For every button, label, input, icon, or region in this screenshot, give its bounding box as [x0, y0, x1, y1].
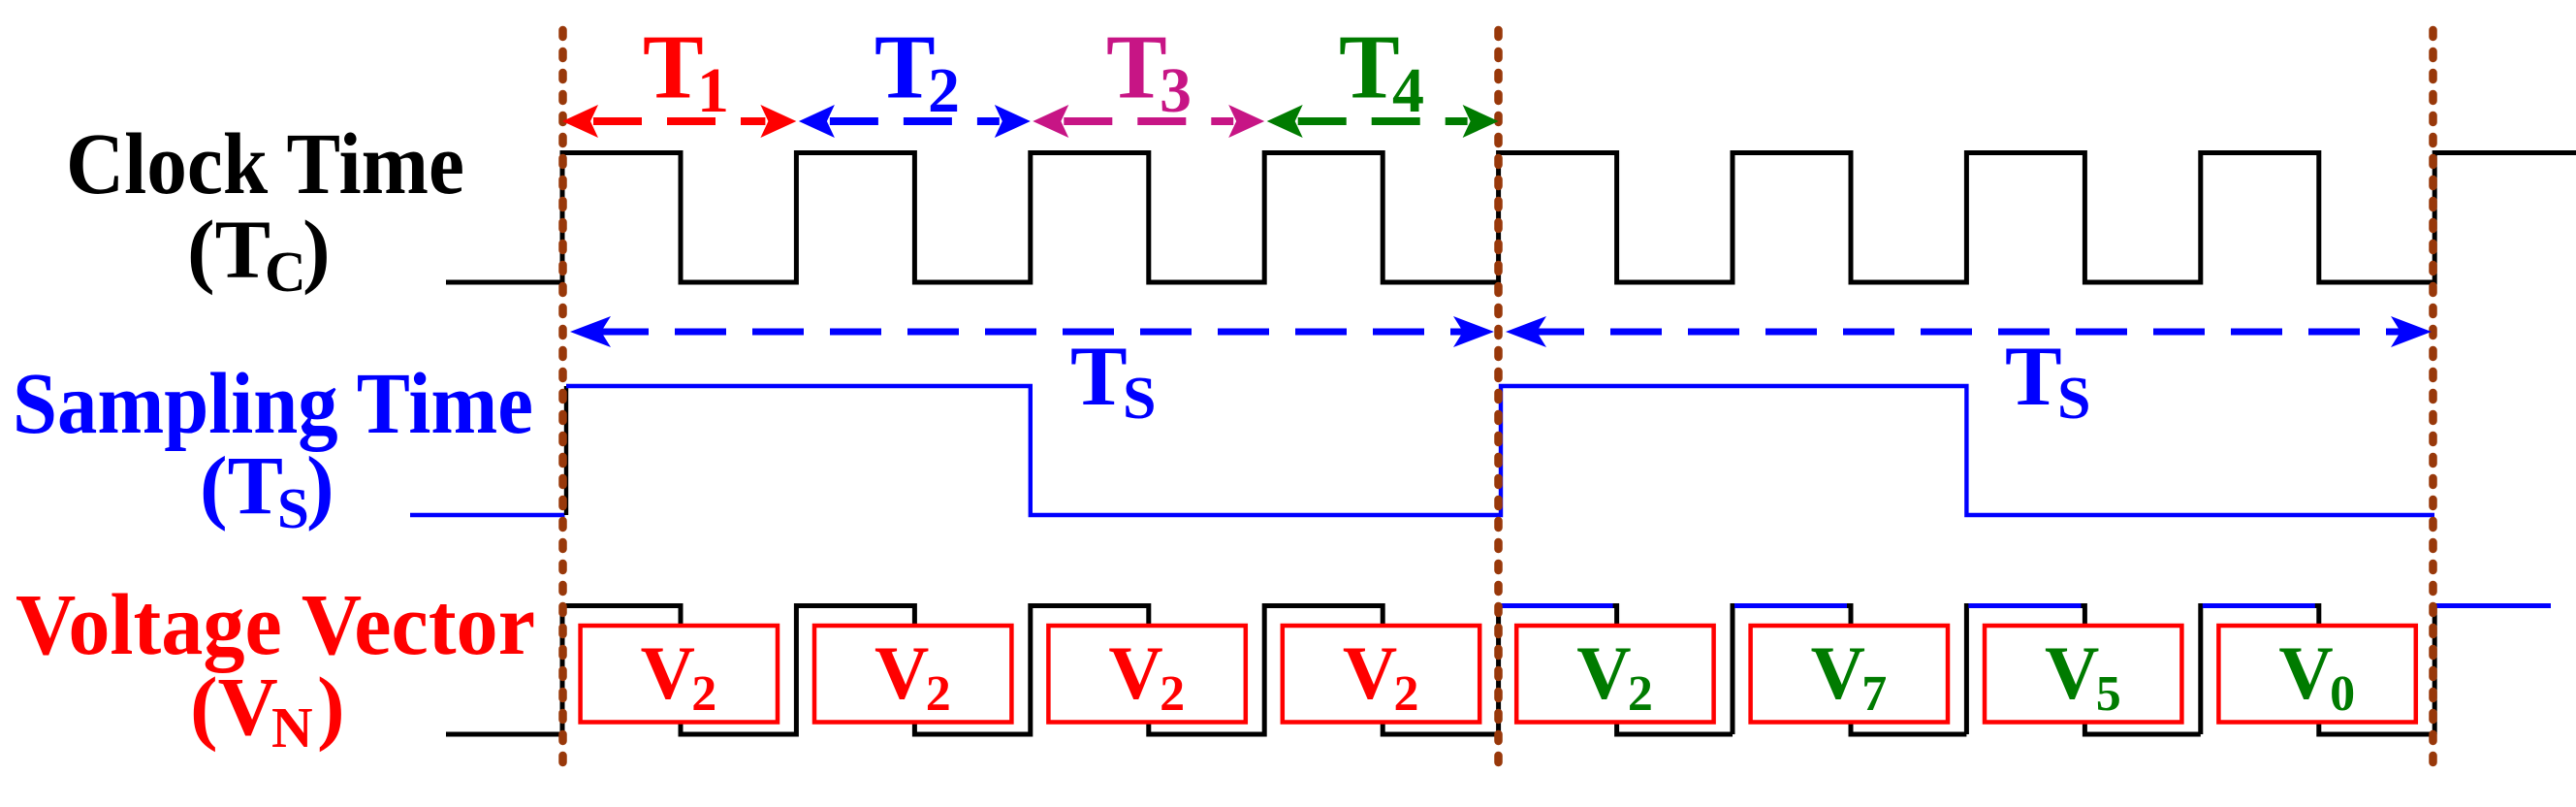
svg-text:V: V	[641, 630, 695, 715]
svg-text:2: 2	[1160, 666, 1185, 722]
svg-text:(T: (T	[200, 439, 283, 533]
box V2 period 1	[581, 626, 778, 723]
svg-text:V: V	[1811, 630, 1865, 715]
box V0 period 8	[2218, 626, 2415, 723]
duration arrow T3	[1064, 117, 1233, 125]
svg-text:3: 3	[1160, 55, 1192, 126]
svg-text:C: C	[265, 240, 306, 304]
svg-text:2: 2	[928, 55, 960, 126]
voltage final rise at boundary 3	[2434, 606, 2442, 735]
sampling period arrow Ts first	[597, 329, 1467, 336]
voltage right-half pulses black edges	[1499, 606, 1507, 735]
duration arrow T1	[593, 117, 765, 125]
svg-text:2: 2	[691, 666, 716, 722]
clock waveform Tc	[446, 153, 2576, 283]
svg-text:2: 2	[1394, 666, 1419, 722]
sampling waveform Ts main	[566, 386, 2434, 515]
svg-text:(V: (V	[190, 660, 278, 753]
svg-text:2: 2	[1628, 666, 1653, 722]
box V2 period 2	[814, 626, 1011, 723]
svg-text:0: 0	[2330, 666, 2355, 722]
svg-text:T: T	[1106, 17, 1167, 118]
svg-text:5: 5	[2096, 666, 2121, 722]
svg-text:7: 7	[1861, 666, 1887, 722]
svg-text:T: T	[1339, 17, 1400, 118]
box V7 period 6	[1751, 626, 1948, 723]
svg-text:S: S	[277, 476, 309, 540]
svg-text:S: S	[1123, 366, 1156, 432]
duration arrow T4	[1298, 117, 1468, 125]
svg-text:Sampling Time: Sampling Time	[13, 356, 533, 452]
sampling rise edge black at boundary 1	[564, 386, 568, 515]
svg-text:2: 2	[926, 666, 951, 722]
voltage right-half blue tops	[1501, 603, 1613, 608]
svg-text:1: 1	[697, 55, 729, 126]
svg-text:V: V	[1343, 630, 1397, 715]
sampling waveform Ts low lead-in	[410, 513, 565, 517]
svg-text:): )	[302, 203, 331, 296]
svg-text:T: T	[875, 17, 936, 118]
svg-text:T: T	[643, 17, 704, 118]
svg-text:N: N	[271, 695, 313, 759]
voltage vector waveform lead-in and left pulses	[446, 606, 1499, 735]
box V5 period 7	[1985, 626, 2181, 723]
sampling period arrow Ts second	[1533, 329, 2403, 336]
box V2 period 4	[1283, 626, 1479, 723]
period boundary dotted line 2	[1494, 30, 1503, 776]
svg-text:(T: (T	[187, 203, 270, 296]
period boundary dotted line 1	[558, 30, 567, 776]
svg-text:V: V	[2045, 630, 2099, 715]
svg-text:): )	[306, 439, 334, 533]
box V2 period 5	[1516, 626, 1713, 723]
svg-text:Clock Time: Clock Time	[66, 116, 464, 212]
svg-text:V: V	[1576, 630, 1631, 715]
svg-text:S: S	[2057, 366, 2090, 432]
svg-text:V: V	[875, 630, 929, 715]
svg-text:V: V	[1108, 630, 1162, 715]
svg-text:T: T	[1070, 330, 1128, 424]
period boundary dotted line 3	[2429, 30, 2437, 776]
duration arrow T2	[830, 117, 1000, 125]
box V2 period 3	[1048, 626, 1245, 723]
svg-text:4: 4	[1392, 55, 1424, 126]
svg-text:V: V	[2278, 630, 2333, 715]
svg-text:T: T	[2005, 330, 2062, 424]
svg-text:): )	[317, 660, 345, 753]
